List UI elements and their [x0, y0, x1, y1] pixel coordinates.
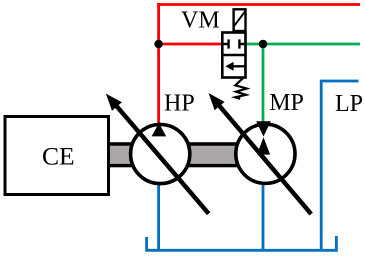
pump HP variable displacement arrow — [106, 94, 209, 214]
svg-text:HP: HP — [164, 90, 195, 116]
valve VM closed position T ports — [222, 39, 245, 48]
pump/motor MP circle U2 — [236, 124, 295, 183]
wire red vertical x=158.6 from top rail to pump HP — [157, 3, 160, 124]
svg-text:CE: CE — [42, 141, 75, 170]
pump/motor MP flow triangles (hourglass) — [256, 121, 271, 154]
shaft HP to MP — [188, 142, 238, 167]
valve VM return spring — [235, 78, 247, 99]
wire blue LP top corner to right edge — [321, 81, 358, 250]
wire red top horizontal (HP net) — [157, 3, 360, 6]
svg-text:LP: LP — [335, 91, 363, 117]
svg-text:VM: VM — [181, 7, 220, 33]
valve VM open position flow arrow — [225, 62, 245, 71]
wire green vertical down to pump/motor MP — [262, 44, 265, 124]
wire green horizontal (MP net) from valve VM right port — [246, 43, 361, 46]
wire blue bottom tank manifold — [147, 236, 337, 250]
pump HP flow triangle — [152, 123, 167, 136]
wire blue vertical from pump HP bottom — [157, 184, 160, 250]
valve VM body (2 positions) — [222, 33, 245, 78]
valve VM solenoid actuator — [234, 9, 246, 31]
svg-text:MP: MP — [269, 90, 304, 116]
shaft CE to HP — [104, 142, 136, 167]
wire red branch to valve VM left port — [157, 43, 223, 46]
node junction dot red branch — [154, 40, 163, 49]
pump HP circle U1 — [131, 124, 190, 183]
node junction dot green branch — [259, 40, 268, 49]
combustion engine CE box — [5, 117, 109, 195]
pump/motor MP variable displacement arrow — [209, 93, 312, 214]
wire blue vertical from pump/motor MP bottom — [262, 184, 265, 250]
